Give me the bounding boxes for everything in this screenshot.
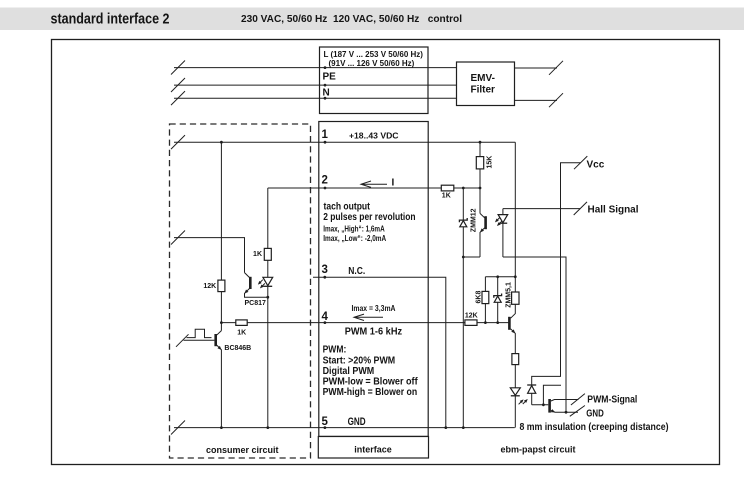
wire line1 drop vertical: [514, 142, 516, 292]
terminal dot N: [324, 97, 327, 100]
resistor 1K LED: [264, 248, 271, 260]
svg-text:230 VAC, 50/60 Hz 120 VAC, 50: 230 VAC, 50/60 Hz 120 VAC, 50/60 Hz cont…: [241, 14, 462, 25]
terminal dot 5: [324, 426, 327, 429]
svg-text:+18..43 VDC: +18..43 VDC: [349, 130, 399, 140]
LED emission arrows PC817: [257, 279, 264, 286]
svg-text:ZMM5,1: ZMM5,1: [506, 282, 513, 308]
wire bridge ZMM12 to Q2 emitter: [463, 256, 480, 258]
svg-text:1K: 1K: [253, 251, 262, 258]
hall arrows: [494, 216, 501, 223]
emitter to GND: [551, 410, 578, 412]
current arrow I: [361, 181, 387, 187]
wire N: [174, 97, 457, 99]
transistor Q1 BC846B: [217, 331, 222, 336]
svg-text:15K: 15K: [487, 156, 494, 169]
break slash N output: [549, 93, 563, 107]
junction ZMM12 tap on line2: [462, 187, 465, 190]
svg-text:1K: 1K: [237, 330, 246, 337]
break slash GND: [570, 406, 585, 417]
wire main vertical from line1: [220, 142, 222, 330]
svg-text:ebm-papst circuit: ebm-papst circuit: [501, 445, 576, 455]
svg-text:2: 2: [322, 175, 328, 187]
transistor Q2 tach buffer: [480, 213, 485, 217]
LED PC817 diode: [263, 277, 273, 285]
svg-text:ZMM12: ZMM12: [471, 208, 478, 232]
outer frame: [52, 40, 720, 465]
svg-text:8 mm insulation (creeping dist: 8 mm insulation (creeping distance): [520, 422, 669, 433]
wire L output: [515, 67, 558, 69]
svg-text:GND: GND: [586, 408, 604, 419]
wire N output: [515, 99, 558, 101]
svg-text:tach output: tach output: [324, 201, 371, 212]
svg-text:2 pulses per revolution: 2 pulses per revolution: [323, 212, 415, 223]
wire L: [174, 67, 457, 69]
svg-text:I: I: [392, 178, 395, 189]
zener ZMM5,1: [497, 277, 499, 323]
resistor emitter path: [512, 354, 519, 365]
terminal dot 2: [324, 187, 327, 190]
break slash PWM-Signal: [571, 394, 585, 405]
terminal dot 3: [323, 276, 326, 279]
wire LED branch from line2: [267, 188, 269, 428]
svg-text:Hall Signal: Hall Signal: [588, 205, 639, 216]
terminal line 3 N.C.: [313, 277, 446, 427]
junction line2 / 15K vertical: [479, 187, 482, 190]
EMV filter U-EMV: [457, 62, 515, 106]
break slash line 1: [171, 135, 185, 149]
junction bridge/ZMM12: [462, 256, 465, 259]
mains terminal box L/PE/N: [320, 47, 429, 114]
junction GND drop / emitter rail: [565, 411, 568, 414]
resistor 12K on line4: [465, 320, 477, 326]
base wire BC846B: [184, 339, 215, 341]
svg-text:PC817: PC817: [245, 300, 267, 307]
hall sensor diode: [502, 209, 504, 257]
junction LED ground / line5: [266, 426, 269, 429]
rail 6K8/zener top: [485, 276, 515, 278]
break slash line 5: [171, 421, 185, 435]
svg-text:N: N: [323, 88, 330, 99]
junction line1/vertical: [220, 141, 223, 144]
wire hall bottom to GND drop: [503, 257, 566, 412]
Q3 emitter: [511, 329, 516, 354]
svg-text:PWM-Signal: PWM-Signal: [587, 394, 637, 405]
svg-text:Imax = 3,3mA: Imax = 3,3mA: [352, 304, 396, 313]
wire Vcc: [532, 163, 581, 385]
svg-text:(91V ... 126 V 50/60 Hz): (91V ... 126 V 50/60 Hz): [329, 59, 415, 68]
transistor Q3 PWM driver bar: [508, 317, 511, 330]
junction NC drop on line5: [444, 426, 447, 429]
svg-text:PWM 1-6 kHz: PWM 1-6 kHz: [345, 327, 402, 338]
resistor 15K branch: [479, 142, 481, 213]
terminal line 1 +18..43VDC: [174, 141, 515, 143]
wire LED to GND line5: [514, 396, 516, 428]
opto output phototransistor base rail: [532, 404, 549, 406]
svg-text:PWM:: PWM:: [323, 345, 347, 356]
svg-text:1: 1: [322, 129, 329, 141]
resistor 1K on line2: [441, 185, 454, 191]
resistor 6K8: [484, 277, 486, 323]
svg-text:Imax, „Low“: -2,0mA: Imax, „Low“: -2,0mA: [323, 234, 386, 243]
svg-text:Start: >20% PWM: Start: >20% PWM: [323, 356, 396, 367]
svg-text:12K: 12K: [203, 283, 216, 290]
svg-text:5: 5: [322, 416, 329, 428]
svg-text:Filter: Filter: [471, 85, 496, 96]
resistor 12K consumer: [218, 280, 225, 292]
svg-text:GND: GND: [348, 416, 366, 428]
opto transistor PC817: [245, 273, 250, 278]
svg-text:3: 3: [322, 264, 328, 276]
header gray bar: [0, 8, 744, 31]
svg-text:L (187 V ... 253 V 50/60 Hz): L (187 V ... 253 V 50/60 Hz): [324, 50, 424, 59]
LED emission arrows output: [517, 398, 524, 405]
break slash Vcc: [574, 156, 587, 169]
terminal dot PE: [324, 84, 327, 87]
svg-text:PE: PE: [323, 72, 337, 83]
terminal dot 4: [324, 321, 327, 324]
interface column box: [319, 122, 428, 437]
phototransistor output bar: [548, 399, 551, 413]
svg-text:4: 4: [322, 311, 329, 323]
svg-text:Digital PWM: Digital PWM: [323, 366, 375, 377]
break slash hall: [574, 202, 587, 215]
svg-text:12K: 12K: [465, 313, 478, 320]
junction ZMM12 / line5: [462, 426, 465, 429]
anti-parallel diode: [531, 393, 533, 405]
consumer circuit dashed box: [170, 124, 311, 458]
terminal line 2 tach: [268, 187, 480, 189]
current arrow 3,3mA: [354, 314, 383, 320]
wire to transistor Q3 collector: [511, 304, 516, 318]
zener ZMM12: [462, 188, 464, 428]
terminal dot L: [324, 66, 327, 69]
wire hall signal: [503, 208, 581, 210]
wire emitter resistor to LED: [514, 365, 516, 388]
svg-text:N.C.: N.C.: [348, 266, 365, 277]
terminal line 5 GND: [174, 427, 515, 429]
svg-text:Vcc: Vcc: [587, 160, 605, 171]
svg-text:1K: 1K: [442, 193, 451, 200]
pulse waveform symbol: [187, 329, 212, 337]
break slash N: [171, 91, 185, 105]
interface label box: [318, 437, 428, 459]
svg-text:consumer circuit: consumer circuit: [206, 445, 279, 455]
base stub hook: [543, 385, 561, 405]
svg-text:interface: interface: [354, 445, 392, 455]
break slash base: [176, 334, 189, 347]
svg-text:standard interface 2: standard interface 2: [51, 11, 170, 28]
collector to PWM-Signal: [551, 400, 579, 402]
terminal line 4 PWM: [221, 322, 508, 324]
wire PE: [174, 84, 457, 86]
svg-text:PWM-high = Blower on: PWM-high = Blower on: [323, 387, 418, 398]
svg-text:BC846B: BC846B: [224, 345, 251, 352]
svg-text:PWM-low = Blower off: PWM-low = Blower off: [323, 377, 419, 388]
svg-text:6K8: 6K8: [476, 291, 483, 304]
svg-text:Imax, „High“: 1,6mA: Imax, „High“: 1,6mA: [323, 225, 385, 234]
svg-text:EMV-: EMV-: [471, 73, 495, 84]
resistor in collector path: [512, 292, 519, 304]
junction PC817 emitter/LED cathode: [266, 296, 269, 299]
terminal dot 1: [324, 141, 327, 144]
break slash tach input: [171, 231, 185, 245]
break slash L output: [549, 61, 563, 75]
junction BC846B emitter / line5: [220, 426, 223, 429]
junction 1K/12K node: [220, 321, 223, 324]
LED output optocoupler: [510, 388, 520, 396]
break slash L: [171, 61, 185, 75]
break slash PE: [171, 78, 185, 92]
resistor 1K consumer (on line 4): [236, 320, 247, 326]
wire tach slash input: [174, 238, 245, 273]
